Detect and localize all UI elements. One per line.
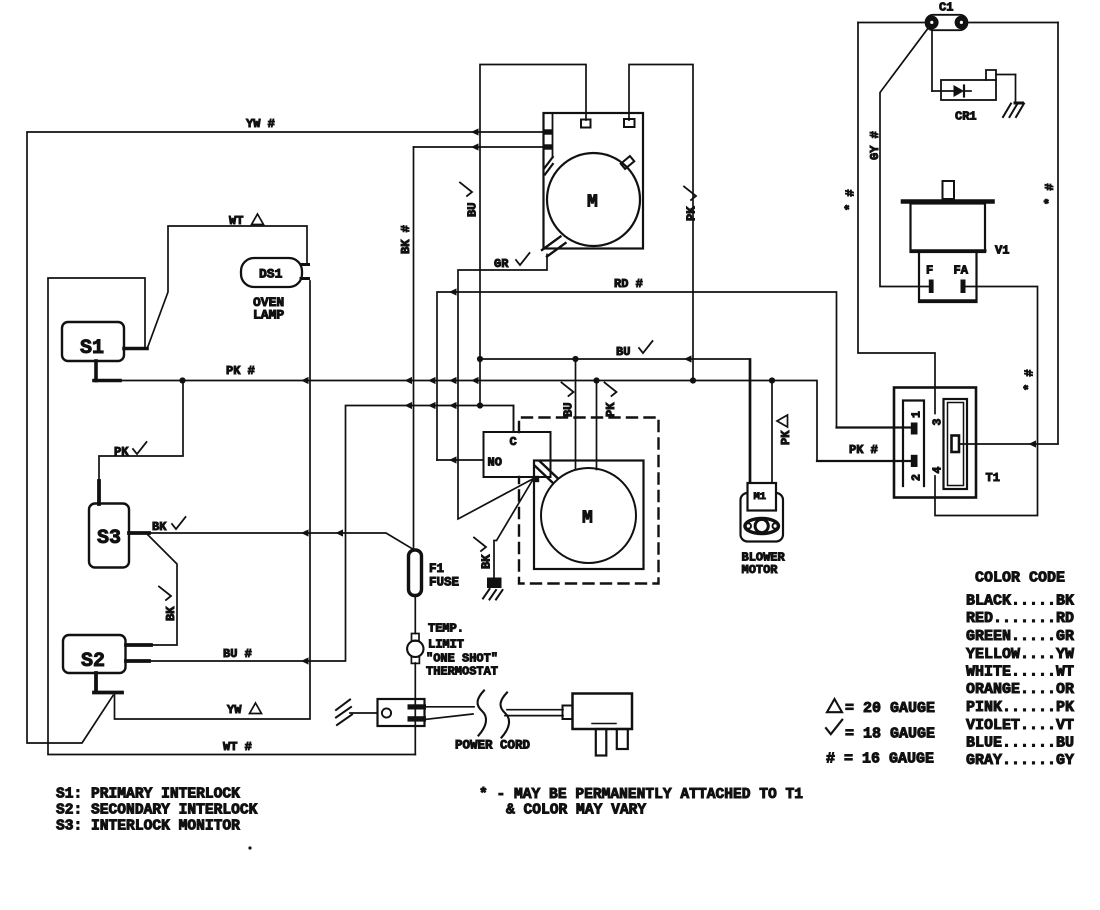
svg-text:DS1: DS1 <box>259 267 283 282</box>
svg-text:M1: M1 <box>754 491 767 503</box>
svg-text:LAMP: LAMP <box>253 308 284 323</box>
svg-text:GY #: GY # <box>868 131 882 160</box>
svg-text:T1: T1 <box>986 471 1000 485</box>
svg-text:RD #: RD # <box>614 277 643 291</box>
svg-text:& COLOR MAY VARY: & COLOR MAY VARY <box>506 803 646 819</box>
svg-text:GREEN.....GR: GREEN.....GR <box>966 628 1074 645</box>
svg-text:C1: C1 <box>939 1 953 15</box>
svg-text:PK: PK <box>114 445 129 459</box>
svg-text:2: 2 <box>911 474 924 481</box>
svg-text:TEMP.: TEMP. <box>428 622 464 636</box>
svg-text:FA: FA <box>954 264 969 278</box>
svg-text:NO: NO <box>488 456 502 470</box>
svg-text:MOTOR: MOTOR <box>742 563 779 577</box>
svg-text:BK: BK <box>164 606 178 621</box>
svg-text:GRAY......GY: GRAY......GY <box>966 752 1074 769</box>
svg-text:GR: GR <box>494 257 509 271</box>
svg-text:S2: S2 <box>81 650 105 673</box>
svg-text:PK: PK <box>779 430 793 445</box>
svg-text:* #: * # <box>1023 369 1037 391</box>
svg-text:LIMIT: LIMIT <box>428 638 464 652</box>
svg-text:BLACK.....BK: BLACK.....BK <box>966 593 1074 610</box>
svg-text:RED.......RD: RED.......RD <box>966 610 1074 627</box>
svg-text:ORANGE....OR: ORANGE....OR <box>966 681 1074 698</box>
svg-text:# = 16 GAUGE: # = 16 GAUGE <box>826 751 934 768</box>
svg-text:PK #: PK # <box>226 364 255 378</box>
svg-text:* #: * # <box>844 189 858 211</box>
svg-text:= 18 GAUGE: = 18 GAUGE <box>845 726 935 743</box>
svg-text:S3: INTERLOCK MONITOR: S3: INTERLOCK MONITOR <box>56 819 240 835</box>
svg-text:F: F <box>926 264 933 278</box>
svg-text:S1: PRIMARY INTERLOCK: S1: PRIMARY INTERLOCK <box>56 787 240 803</box>
svg-text:FUSE: FUSE <box>429 576 459 590</box>
svg-text:V1: V1 <box>995 244 1009 258</box>
svg-text:1: 1 <box>911 411 924 418</box>
svg-text:M: M <box>582 509 593 529</box>
svg-text:WT #: WT # <box>223 740 252 754</box>
svg-text:= 20 GAUGE: = 20 GAUGE <box>845 700 935 717</box>
svg-text:BK #: BK # <box>399 225 413 254</box>
svg-text:S2: SECONDARY INTERLOCK: S2: SECONDARY INTERLOCK <box>56 803 258 819</box>
svg-text:C: C <box>510 435 517 449</box>
svg-text:* #: * # <box>1043 183 1057 205</box>
svg-text:M: M <box>587 193 598 213</box>
svg-text:YW #: YW # <box>246 117 275 131</box>
svg-text:S1: S1 <box>80 337 104 360</box>
svg-text:BK: BK <box>152 520 167 534</box>
svg-text:BLUE......BU: BLUE......BU <box>966 735 1074 752</box>
svg-text:BU #: BU # <box>223 647 252 661</box>
svg-text:F1: F1 <box>429 562 444 576</box>
svg-text:WHITE.....WT: WHITE.....WT <box>966 664 1074 681</box>
svg-text:BU: BU <box>466 203 480 217</box>
svg-text:S3: S3 <box>97 527 121 550</box>
svg-text:CR1: CR1 <box>955 110 977 124</box>
svg-text:PINK......PK: PINK......PK <box>966 699 1074 716</box>
svg-text:YW: YW <box>227 703 242 717</box>
svg-text:PK: PK <box>604 402 618 417</box>
svg-text:PK #: PK # <box>849 443 878 457</box>
svg-text:PK: PK <box>685 206 699 221</box>
svg-text:VIOLET....VT: VIOLET....VT <box>966 717 1074 734</box>
svg-text:THERMOSTAT: THERMOSTAT <box>426 665 498 679</box>
svg-text:"ONE SHOT": "ONE SHOT" <box>426 652 498 666</box>
svg-text:* - MAY BE PERMANENTLY ATTACHE: * - MAY BE PERMANENTLY ATTACHED TO T1 <box>479 787 803 803</box>
svg-text:WT: WT <box>229 214 243 228</box>
svg-text:YELLOW....YW: YELLOW....YW <box>966 646 1074 663</box>
svg-text:COLOR CODE: COLOR CODE <box>975 570 1065 587</box>
svg-text:BU: BU <box>562 403 576 417</box>
svg-text:BK: BK <box>480 554 494 569</box>
svg-text:BU: BU <box>616 345 630 359</box>
svg-text:POWER CORD: POWER CORD <box>455 739 531 753</box>
